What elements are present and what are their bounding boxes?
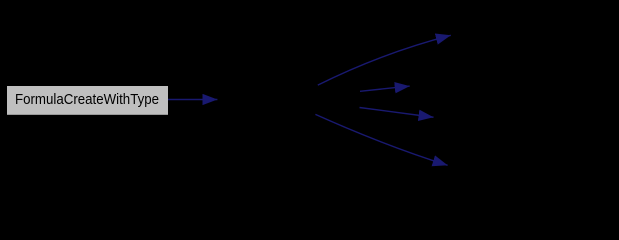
wire: middle -> target 2 (360, 86, 410, 91)
wire: middle -> bottom target (315, 114, 447, 165)
wire: middle -> target 3 (360, 108, 434, 118)
wire: middle -> top target (318, 35, 451, 85)
svg-text:FormulaCreateWithType: FormulaCreateWithType (15, 92, 159, 108)
wire: FormulaCreateWithType -> middle (168, 99, 217, 101)
node: FormulaCreateWithType (7, 86, 168, 115)
